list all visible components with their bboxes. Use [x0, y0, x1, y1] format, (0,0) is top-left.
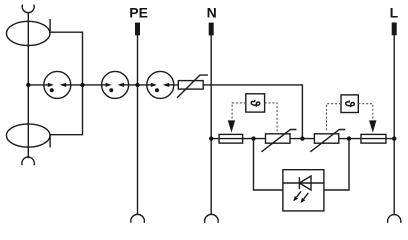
svg-text:N: N: [207, 5, 217, 21]
svg-text:PE: PE: [129, 5, 148, 21]
svg-text:L: L: [390, 5, 399, 21]
svg-text:ϑ: ϑ: [342, 100, 358, 107]
svg-text:ϑ: ϑ: [247, 100, 263, 107]
